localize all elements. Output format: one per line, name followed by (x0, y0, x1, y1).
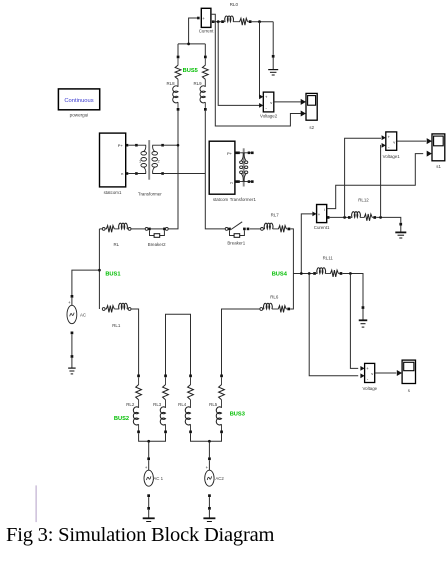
svg-text:Transformer: Transformer (138, 191, 162, 196)
svg-text:+: + (206, 465, 209, 470)
wire node J4 up to Voltage1 minus (380, 145, 382, 217)
svg-text:statcom1: statcom1 (104, 190, 122, 195)
svg-text:+: + (145, 465, 148, 470)
svg-text:AC: AC (80, 313, 86, 318)
wire Current1 i-output up and right to scope s1 bottom (327, 154, 424, 209)
svg-text:RL2: RL2 (126, 402, 135, 407)
caption (6, 524, 274, 547)
arrow into Voltage minus (360, 373, 364, 378)
svg-text:RL: RL (113, 242, 119, 247)
node on BUS5 bus (187, 43, 190, 46)
source AC2 (208, 457, 211, 460)
svg-text:Voltage2: Voltage2 (260, 114, 278, 119)
wire: RL8 bottom down to breaker row, left to Breaker2 (168, 111, 178, 229)
voltage measurement Voltage1 (386, 132, 397, 150)
wire AC2 to ground (208, 497, 210, 507)
stray cursor line (35, 485, 37, 522)
scope s2 (306, 93, 317, 120)
bus wire joining RL4 and RL5 bottoms (191, 433, 222, 441)
Transformer1 right stub ports (251, 152, 254, 155)
wire RL12 right to ground G2 (376, 217, 401, 222)
ground G2 (399, 223, 402, 226)
svg-text:RL6: RL6 (270, 294, 279, 299)
wire corner at RL row (99, 228, 102, 230)
svg-text:Curent1: Curent1 (314, 225, 330, 230)
wire node J3 up to Voltage1 plus (345, 138, 381, 217)
current measurement Current1 (317, 205, 327, 223)
ground under AC 1 (147, 507, 150, 510)
svg-text:RL4: RL4 (178, 402, 187, 407)
svg-text:+: + (202, 16, 205, 21)
wire: RL9 bottom down to breaker row, right to Breaker1 (205, 111, 225, 229)
svg-text:2: 2 (157, 159, 159, 163)
svg-text:s: s (408, 388, 411, 393)
ground under AC2 (208, 507, 211, 510)
wire statcom1 to Transformer (128, 144, 135, 146)
svg-text:powergui: powergui (70, 113, 89, 118)
bus wire BUS4 row (293, 273, 313, 275)
svg-text:statcom: statcom (213, 197, 229, 202)
transformer Transformer1 (243, 148, 245, 186)
svg-text:Voltage: Voltage (362, 386, 377, 391)
svg-text:RL5: RL5 (209, 402, 218, 407)
arrow into Voltage1 minus (382, 143, 386, 148)
wire RL11 right to ground G3 (342, 274, 363, 307)
svg-text:Current: Current (199, 29, 214, 34)
wire Voltage output to scope s (375, 372, 397, 374)
svg-text:AC2: AC2 (215, 476, 224, 481)
wire: BUS1 node left to AC source (72, 270, 100, 295)
arrow into Voltage2 minus (259, 103, 263, 108)
wire Breaker1 to RL7 (250, 228, 261, 230)
svg-text:RL11: RL11 (323, 256, 334, 261)
wire: RL0 right to ground node (252, 21, 274, 23)
wire RL7 right down to BUS4 node (290, 229, 293, 274)
Current1 right port (327, 216, 330, 219)
ground G3 (362, 306, 365, 309)
wire AC 1 to ground (148, 497, 150, 507)
wire Transformer bottom-right across to RL9 line (164, 173, 205, 175)
svg-text:v: v (270, 100, 272, 105)
wire RL1 right down to branch RL2 top (131, 309, 139, 375)
block statcom1 (100, 133, 126, 187)
node J4 after RL12 (379, 216, 382, 219)
source AC (71, 298, 73, 305)
node J7 (to Voltage plus) (349, 272, 352, 275)
ground G4 (71, 355, 74, 358)
svg-text:BUS3: BUS3 (230, 411, 245, 417)
arrow into Voltage plus (360, 366, 364, 371)
wire down to source AC 1 (148, 441, 150, 457)
svg-text:BUS4: BUS4 (272, 271, 288, 277)
powergui block (58, 89, 99, 110)
svg-text:RL9: RL9 (193, 81, 202, 86)
node J5 (to Current1) (300, 272, 303, 275)
node to AC1 (147, 440, 150, 443)
node J2 after RL0 (258, 20, 261, 23)
wire: Current right port to RL0 (212, 20, 215, 23)
bus wire BUS5 (178, 43, 205, 45)
wire: BUS5 bus up to Current left port (197, 17, 200, 20)
svg-text:v: v (393, 139, 395, 144)
node J1 between Current and RL0 (217, 20, 220, 23)
svg-text:Breaker1: Breaker1 (227, 241, 245, 246)
wire: node J1 down to Voltage2 minus input (218, 22, 260, 106)
bus wire joining RL2 and RL3 bottoms (139, 433, 166, 441)
arrow into s (397, 370, 402, 376)
arrow into Voltage2 plus (259, 94, 263, 99)
wire BUS4 up to Current1 input (301, 214, 312, 274)
svg-text:RL12: RL12 (358, 197, 369, 202)
block statcom (209, 141, 235, 194)
junction on RL8 line (177, 144, 180, 147)
node J3 before RL12 (343, 216, 346, 219)
bus wire between RL3 and RL4 branch tops (166, 314, 191, 374)
statcom port P+ (235, 152, 238, 155)
arrow into s2 bottom (301, 111, 306, 117)
node T at BUS1 (98, 269, 101, 272)
wire Voltage2 output to scope s2 (274, 101, 301, 103)
svg-text:Breaker2: Breaker2 (148, 242, 166, 247)
svg-text:RL3: RL3 (153, 402, 162, 407)
arrow into Voltage1 plus (382, 135, 386, 140)
arrow into s1 top (427, 138, 432, 144)
svg-text:n: n (121, 171, 123, 176)
svg-text:Continuous: Continuous (64, 98, 93, 104)
wire Transformer top-right to RL8 line (164, 144, 178, 146)
svg-text:P+: P+ (227, 151, 233, 156)
svg-text:RL0: RL0 (230, 2, 239, 7)
wire: RL left port column down from breaker row to RL1 row (98, 229, 100, 309)
scope s (402, 360, 415, 383)
voltage measurement Voltage (365, 363, 375, 382)
node to AC2 (208, 440, 211, 443)
svg-text:BUS5: BUS5 (183, 68, 198, 74)
svg-text:RL1: RL1 (112, 323, 121, 328)
svg-text:P+: P+ (118, 143, 124, 148)
node J6 (to Voltage minus) (308, 272, 311, 275)
svg-text:s1: s1 (436, 164, 441, 169)
wire AC to ground G4 (71, 334, 73, 355)
svg-text:v: v (371, 371, 373, 376)
svg-text:BUS2: BUS2 (114, 416, 129, 422)
scope s1 (432, 134, 445, 161)
svg-text:1: 1 (139, 159, 141, 163)
ground G1 (272, 55, 275, 58)
svg-text:AC 1: AC 1 (153, 476, 163, 481)
svg-text:Transformer1: Transformer1 (230, 197, 257, 202)
svg-text:Voltage1: Voltage1 (383, 154, 401, 159)
svg-text:n: n (230, 180, 232, 185)
wire down to source AC2 (208, 441, 210, 457)
svg-text:BUS1: BUS1 (105, 272, 120, 278)
voltage measurement Voltage2 (263, 92, 274, 112)
wire down to ground G1 (272, 22, 274, 55)
current measurement U-Current (201, 8, 211, 27)
AC source port (71, 295, 74, 298)
svg-text:s2: s2 (309, 125, 314, 130)
source AC 1 (147, 457, 150, 460)
wire Voltage1 output to scope s1 (397, 140, 427, 142)
statcom1 port n (126, 172, 129, 175)
transformer Transformer (148, 140, 150, 180)
arrow into Current1 left (312, 212, 316, 217)
arrow into s2 top (301, 99, 306, 105)
wire: node J2 down to Voltage2 plus input (259, 22, 262, 97)
svg-text:+: + (68, 300, 71, 305)
wire Current1 to RL12 (330, 216, 348, 218)
wire node J6 down to Voltage minus input (309, 274, 358, 376)
statcom1 port P+ (126, 144, 129, 147)
arrow into s1 bottom (427, 151, 432, 157)
wire BUS5 to RL9 (204, 44, 206, 56)
wire node J7 down to Voltage plus input (350, 274, 358, 369)
svg-text:RL7: RL7 (271, 212, 280, 217)
wire RL6 left to branch RL5 top (222, 309, 260, 375)
AC bottom port (71, 332, 74, 335)
wire BUS5 to RL8 (177, 44, 179, 56)
svg-text:RL8: RL8 (166, 81, 175, 86)
wire: Current i-output down-right to scope s2 bottom input (211, 14, 301, 126)
wire RL to Breaker2 (131, 228, 145, 230)
wire BUS4 down to RL6 right (290, 274, 293, 310)
statcom port n (235, 180, 238, 183)
